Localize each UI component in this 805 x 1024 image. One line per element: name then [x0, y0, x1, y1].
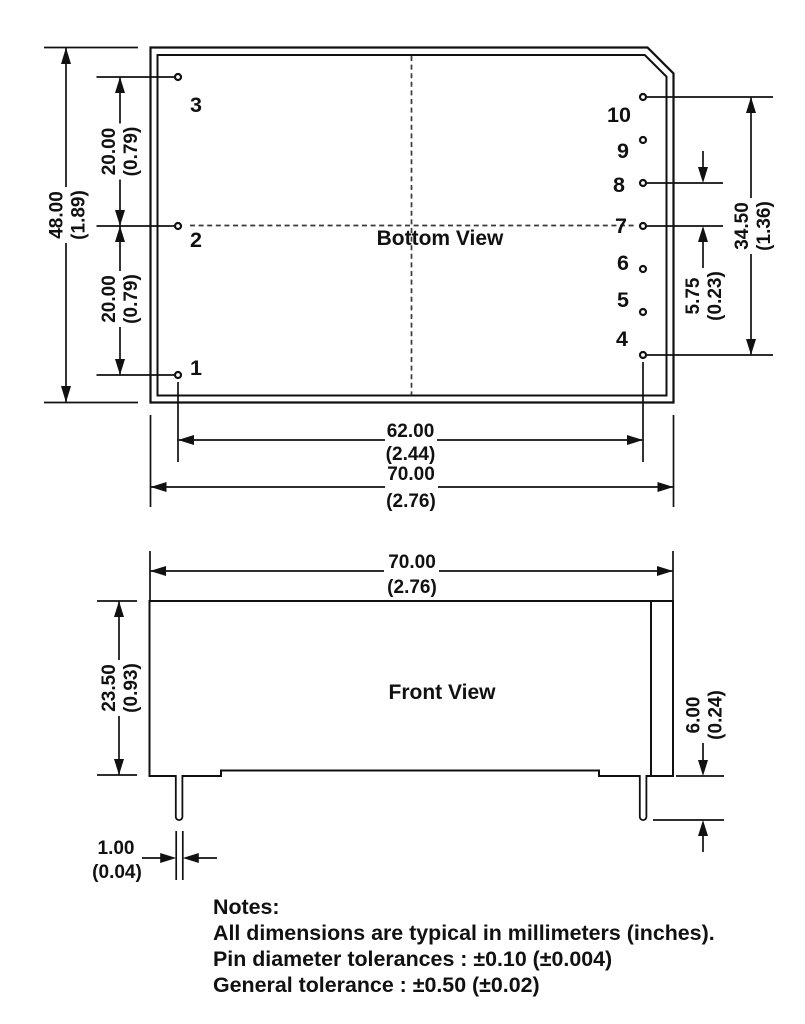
svg-text:5.75: 5.75: [683, 277, 704, 314]
svg-text:(1.89): (1.89): [69, 190, 90, 240]
svg-text:48.00: 48.00: [47, 191, 68, 239]
svg-text:(0.23): (0.23): [705, 271, 726, 321]
svg-text:70.00: 70.00: [387, 464, 435, 485]
svg-text:62.00: 62.00: [387, 421, 435, 442]
svg-text:10: 10: [607, 103, 631, 127]
svg-text:5: 5: [617, 288, 629, 312]
svg-text:6.00: 6.00: [684, 697, 705, 734]
svg-text:23.50: 23.50: [99, 664, 120, 712]
svg-text:(2.44): (2.44): [386, 444, 436, 465]
svg-text:20.00: 20.00: [99, 128, 120, 176]
svg-text:2: 2: [190, 228, 202, 252]
svg-text:1: 1: [190, 356, 202, 380]
svg-text:(1.36): (1.36): [754, 201, 775, 251]
svg-text:(0.93): (0.93): [121, 663, 142, 713]
svg-text:Pin diameter tolerances : ±0.1: Pin diameter tolerances : ±0.10 (±0.004): [213, 947, 612, 971]
svg-text:7: 7: [615, 214, 627, 238]
svg-text:(0.79): (0.79): [121, 127, 142, 177]
svg-text:(2.76): (2.76): [386, 491, 436, 512]
svg-text:Bottom View: Bottom View: [377, 227, 504, 250]
svg-text:Front View: Front View: [389, 681, 497, 704]
svg-text:6: 6: [617, 251, 629, 275]
svg-text:4: 4: [616, 327, 628, 351]
svg-text:General tolerance : ±0.50 (±0.: General tolerance : ±0.50 (±0.02): [213, 973, 540, 997]
svg-text:70.00: 70.00: [388, 552, 436, 573]
svg-text:1.00: 1.00: [98, 838, 135, 859]
svg-text:3: 3: [190, 93, 202, 117]
svg-text:9: 9: [617, 139, 629, 163]
svg-text:Notes:: Notes:: [213, 895, 280, 919]
svg-text:34.50: 34.50: [732, 202, 753, 250]
svg-text:(0.24): (0.24): [706, 690, 727, 740]
svg-text:(0.04): (0.04): [92, 862, 142, 883]
svg-text:(0.79): (0.79): [121, 274, 142, 324]
svg-text:All dimensions are typical in: All dimensions are typical in millimeter…: [213, 921, 715, 945]
svg-text:(2.76): (2.76): [387, 577, 437, 598]
svg-text:20.00: 20.00: [99, 275, 120, 323]
svg-text:8: 8: [613, 173, 625, 197]
